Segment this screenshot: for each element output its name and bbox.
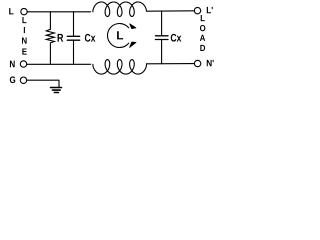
label LOAD - D (200, 45, 205, 51)
label LINE - N (22, 37, 27, 43)
label LINE - E (22, 48, 26, 54)
resistor R zigzag (46, 29, 54, 43)
capacitor Cx2 stub bottom (161, 40, 163, 64)
inductance arrow head bottom (130, 42, 136, 47)
wire top-left rail (27, 11, 90, 13)
label LOAD - L (201, 15, 205, 21)
terminal N (20, 61, 26, 67)
inductor L top winding (93, 2, 146, 17)
resistor R stub bottom (49, 43, 51, 64)
label LINE - I (24, 27, 25, 33)
capacitor Cx2 top plate (155, 35, 168, 37)
capacitor Cx1 bottom plate (67, 39, 79, 41)
ground symbol bar 3 (54, 92, 58, 94)
label LOAD - A (200, 35, 205, 41)
ground symbol bar 2 (53, 89, 61, 91)
label LINE - L (22, 17, 26, 23)
capacitor Cx2 bottom plate (155, 39, 168, 41)
capacitor Cx2 stub top (161, 11, 163, 36)
label L (line terminal) (9, 8, 13, 14)
label LOAD - O (200, 25, 205, 31)
label R (58, 34, 64, 42)
label Cx2 (171, 34, 182, 42)
wire top-right rail (146, 10, 194, 12)
inductance arrow head top (130, 24, 136, 29)
terminal L' (194, 7, 200, 13)
inductance arrow arc (107, 24, 128, 48)
label N' (load neutral) (207, 60, 214, 66)
capacitor Cx1 top plate (67, 35, 79, 37)
terminal L (21, 8, 27, 14)
label L (inductance) (117, 31, 123, 39)
label L' (load line) (207, 7, 213, 13)
label G (ground terminal) (10, 76, 15, 83)
label Cx1 (85, 34, 96, 42)
capacitor Cx1 stub bottom (73, 41, 75, 65)
terminal N' (194, 60, 200, 66)
wire bottom-right rail (146, 63, 194, 65)
wire bottom-left rail (27, 63, 91, 65)
wire ground lead (27, 80, 59, 87)
resistor R stub top (49, 12, 51, 30)
capacitor Cx1 stub top (73, 12, 75, 36)
terminal G (20, 77, 26, 83)
label N (neutral terminal) (10, 61, 15, 68)
inductor L bottom winding (93, 60, 147, 75)
ground symbol bar 1 (51, 87, 62, 89)
